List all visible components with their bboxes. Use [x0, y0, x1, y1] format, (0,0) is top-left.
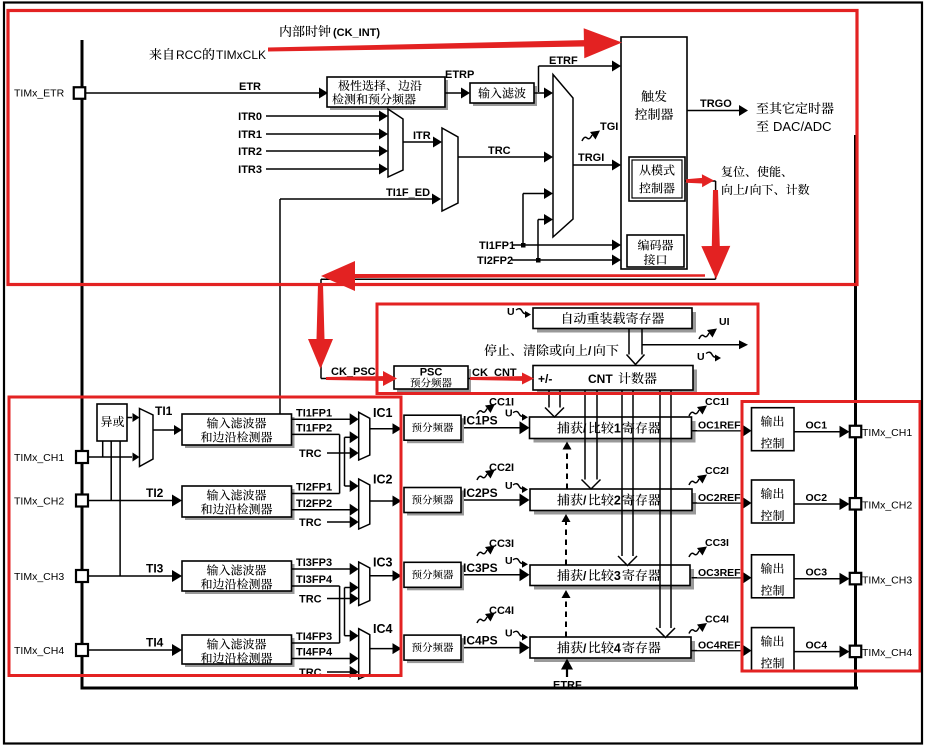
- svg-text:OC1: OC1: [806, 420, 828, 432]
- svg-text:TI1FP1: TI1FP1: [479, 240, 515, 252]
- svg-text:OC4: OC4: [806, 639, 828, 651]
- svg-text:TIMx_CH1: TIMx_CH1: [862, 427, 912, 439]
- svg-text:TIMx_CH4: TIMx_CH4: [862, 647, 912, 659]
- svg-text:TI4: TI4: [146, 636, 164, 650]
- svg-text:ITR1: ITR1: [238, 129, 262, 141]
- svg-text:ETRF: ETRF: [553, 680, 582, 692]
- svg-text:DAC/ADC: DAC/ADC: [773, 119, 832, 134]
- svg-text:OC4REF: OC4REF: [698, 640, 741, 652]
- svg-text:OC1REF: OC1REF: [698, 420, 741, 432]
- svg-text:ETR: ETR: [239, 81, 261, 93]
- svg-text:TI2FP2: TI2FP2: [296, 498, 332, 510]
- svg-text:TI1FP1: TI1FP1: [296, 407, 332, 419]
- svg-text:RCC: RCC: [176, 48, 202, 62]
- svg-text:U: U: [697, 351, 705, 363]
- svg-text:UI: UI: [719, 316, 730, 328]
- svg-text:CC4I: CC4I: [705, 614, 729, 626]
- svg-text:TI4FP4: TI4FP4: [296, 647, 333, 659]
- svg-text:TIMx_CH3: TIMx_CH3: [862, 574, 912, 586]
- svg-text:IC2PS: IC2PS: [463, 486, 498, 500]
- svg-text:U: U: [505, 480, 513, 492]
- svg-text:TRC: TRC: [299, 667, 322, 679]
- svg-text:CC2I: CC2I: [705, 465, 729, 477]
- svg-text:ETRF: ETRF: [549, 55, 578, 67]
- svg-text:TRC: TRC: [299, 594, 322, 606]
- svg-text:TIMx_CH1: TIMx_CH1: [14, 452, 64, 464]
- svg-text:IC2: IC2: [373, 473, 393, 487]
- svg-text:IC1PS: IC1PS: [463, 414, 498, 428]
- svg-text:ETRP: ETRP: [445, 69, 474, 81]
- svg-text:OC3REF: OC3REF: [698, 567, 741, 579]
- svg-text:1: 1: [614, 422, 621, 436]
- svg-text:TIMx_ETR: TIMx_ETR: [14, 88, 65, 100]
- svg-text:3: 3: [614, 569, 621, 583]
- svg-text:CNT: CNT: [588, 372, 613, 386]
- svg-text:OC3: OC3: [806, 567, 828, 579]
- svg-text:4: 4: [614, 641, 621, 655]
- svg-text:ITR2: ITR2: [238, 146, 262, 158]
- svg-text:TRGO: TRGO: [700, 98, 732, 110]
- svg-text:TI1F_ED: TI1F_ED: [386, 187, 430, 199]
- svg-text:TIMx_CH3: TIMx_CH3: [14, 571, 64, 583]
- svg-text:TRC: TRC: [299, 517, 322, 529]
- svg-text:IC3PS: IC3PS: [463, 561, 498, 575]
- svg-text:IC4: IC4: [373, 622, 393, 636]
- svg-text:TRC: TRC: [299, 448, 322, 460]
- svg-text:IC1: IC1: [373, 406, 393, 420]
- svg-text:TI4FP3: TI4FP3: [296, 631, 332, 643]
- svg-text:TIMx_CH2: TIMx_CH2: [14, 496, 64, 508]
- svg-text:PSC: PSC: [420, 367, 443, 379]
- svg-text:CC3I: CC3I: [705, 537, 729, 549]
- svg-text:TIMxCLK: TIMxCLK: [216, 48, 266, 62]
- svg-text:TGI: TGI: [600, 121, 618, 133]
- svg-text:CC1I: CC1I: [705, 396, 729, 408]
- svg-text:IC3: IC3: [373, 556, 393, 570]
- svg-text:CK_PSC: CK_PSC: [331, 366, 376, 378]
- svg-text:/: /: [745, 185, 748, 197]
- svg-text:TI1FP2: TI1FP2: [296, 422, 332, 434]
- svg-text:TI3FP4: TI3FP4: [296, 574, 333, 586]
- svg-text:TI1: TI1: [155, 404, 173, 418]
- svg-text:TI3FP3: TI3FP3: [296, 557, 332, 569]
- svg-text:OC2: OC2: [806, 492, 828, 504]
- svg-text:U: U: [505, 628, 513, 640]
- svg-text:U: U: [507, 306, 515, 318]
- svg-text:TIMx_CH4: TIMx_CH4: [14, 645, 64, 657]
- svg-text:+/-: +/-: [538, 372, 552, 386]
- svg-text:TIMx_CH2: TIMx_CH2: [862, 500, 912, 512]
- svg-text:ITR0: ITR0: [238, 111, 262, 123]
- svg-text:(CK_INT): (CK_INT): [333, 27, 380, 39]
- svg-text:2: 2: [614, 494, 621, 508]
- svg-text:U: U: [505, 408, 513, 420]
- svg-text:TRC: TRC: [488, 145, 511, 157]
- svg-text:TRGI: TRGI: [578, 152, 604, 164]
- svg-text:U: U: [505, 555, 513, 567]
- svg-text:TI2FP1: TI2FP1: [296, 482, 332, 494]
- svg-text:IC4PS: IC4PS: [463, 634, 498, 648]
- svg-text:ITR3: ITR3: [238, 164, 262, 176]
- svg-text:OC2REF: OC2REF: [698, 492, 741, 504]
- svg-text:TI3: TI3: [146, 562, 164, 576]
- svg-text:ITR: ITR: [413, 130, 431, 142]
- svg-text:TI2: TI2: [146, 486, 164, 500]
- svg-text:TI2FP2: TI2FP2: [477, 255, 513, 267]
